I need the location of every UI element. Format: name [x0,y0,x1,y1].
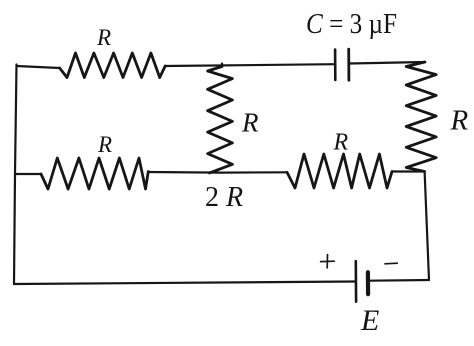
capacitor C1 plate left [334,50,337,80]
resistor R1 [60,53,166,78]
wire top-right segment [349,62,425,64]
wire middle-left stub [15,173,41,175]
wire top middle segment [165,64,335,66]
wire right vertical lower [425,172,429,281]
svg-text:2 R: 2 R [205,182,243,213]
capacitor C1 plate right [347,49,350,80]
resistor R3 (middle left) [41,158,148,189]
resistor R2 stub from top wire [221,64,223,67]
resistor R5 (right vertical) [406,62,436,172]
wire bottom-right segment [368,279,429,282]
wire top-left segment [17,66,60,68]
svg-text:C = 3 µF: C = 3 µF [306,8,397,40]
svg-text:R: R [241,108,259,138]
resistor R4 (middle right) [287,154,392,188]
resistor R2 (middle vertical) [208,67,233,173]
wire left vertical [14,65,17,285]
svg-text:R: R [333,130,349,156]
wire middle center segment [148,171,287,174]
svg-text:E: E [360,304,379,337]
wire middle-right stub [392,170,425,172]
battery E plate short (negative) [366,272,370,294]
battery minus sign [385,262,397,265]
battery E plate long (positive) [354,261,357,301]
svg-text:R: R [97,132,112,157]
svg-text:R: R [96,25,111,50]
wire bottom-left segment [14,282,356,285]
svg-text:R: R [450,105,469,137]
battery plus sign [321,260,335,262]
